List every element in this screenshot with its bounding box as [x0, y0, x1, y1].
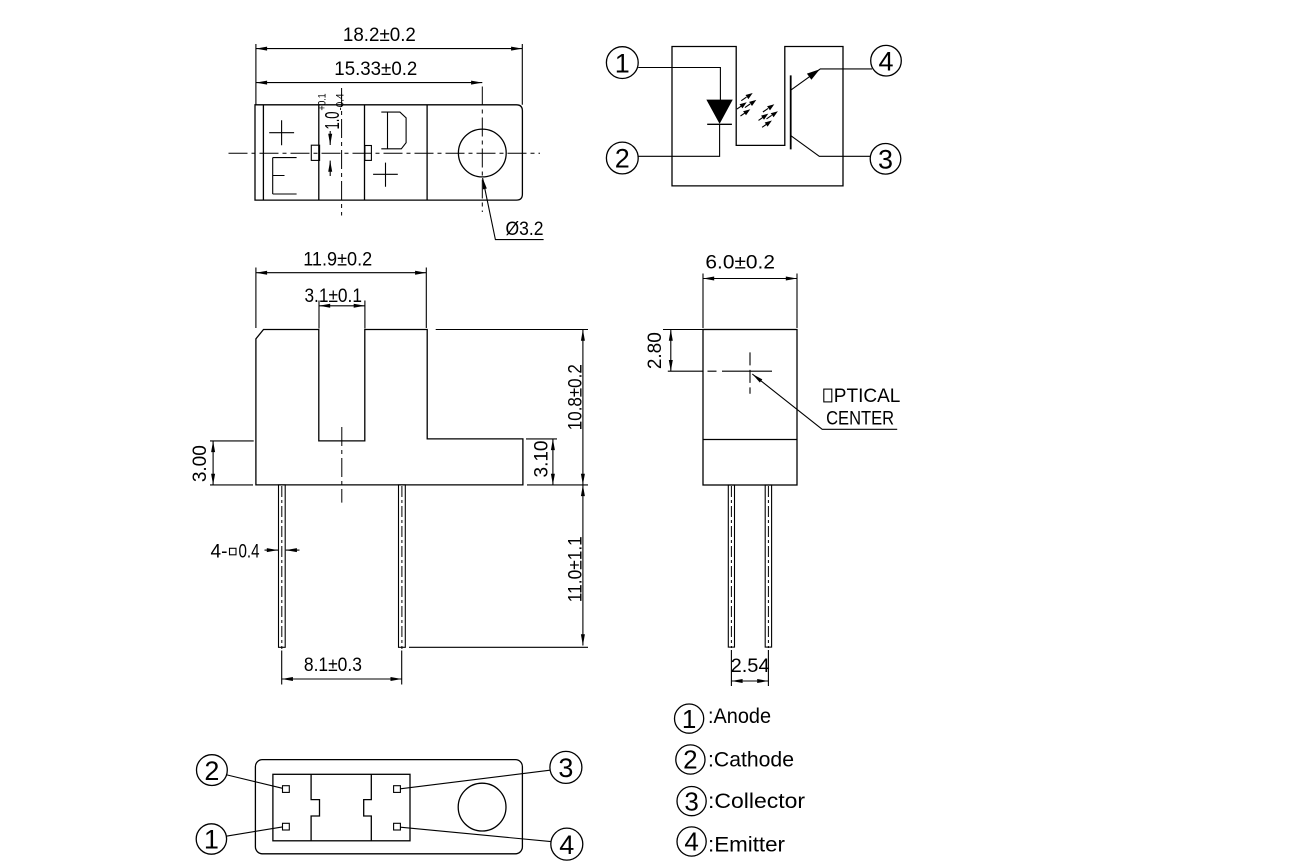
dimension 1.0 arrow upper	[329, 131, 331, 145]
leader pin2	[227, 775, 283, 788]
dimension 2.54 extension lines	[731, 650, 768, 686]
svg-text:3: 3	[878, 145, 893, 175]
light arrow 2	[741, 100, 757, 116]
top view hole centerline vertical	[481, 87, 483, 213]
pin 4 circle	[871, 45, 902, 76]
legend circle 2	[676, 745, 705, 774]
svg-text:15.33±0.2: 15.33±0.2	[334, 59, 417, 80]
svg-text:-0.4: -0.4	[335, 94, 347, 111]
top view D mark	[381, 112, 406, 149]
dimension text 3.00 rotated	[190, 445, 211, 482]
bottom view inner outline	[273, 774, 410, 841]
dimension 8.1 extension lines	[282, 651, 402, 685]
dimension 2.80 line	[670, 330, 672, 372]
bottom view circle 3	[550, 751, 582, 783]
legend circle 1	[675, 704, 704, 733]
svg-text:2.54: 2.54	[731, 656, 770, 677]
dimension 18.2 line	[256, 48, 522, 50]
svg-text:8.1±0.3: 8.1±0.3	[304, 655, 362, 676]
dimension 11.0 line	[582, 485, 584, 646]
top view left inner edge line	[262, 105, 264, 200]
top view package outline	[255, 105, 522, 200]
dimension 8.1 line	[282, 678, 402, 680]
svg-text:3: 3	[558, 753, 573, 783]
front view right pin centerline	[401, 486, 403, 649]
svg-text:4: 4	[878, 46, 893, 76]
dimension 3.10 extension line	[526, 438, 557, 440]
svg-text:3.10: 3.10	[532, 441, 553, 478]
top view section divider 2	[364, 105, 366, 200]
svg-text:10.8±0.2: 10.8±0.2	[566, 364, 587, 430]
svg-text:0.4: 0.4	[239, 542, 260, 563]
svg-text:1: 1	[204, 825, 219, 855]
dimension 6.0 line	[703, 278, 797, 280]
side view left pin	[728, 485, 734, 647]
pin 3 circle	[870, 144, 901, 175]
dimension text 3.10 rotated	[532, 441, 553, 478]
svg-text:11.9±0.2: 11.9±0.2	[303, 250, 372, 271]
pin 1 circle	[606, 47, 638, 79]
leader pin1	[226, 827, 282, 836]
pin 2 circle	[606, 142, 638, 174]
front view right pin	[399, 485, 406, 647]
svg-text:18.2±0.2: 18.2±0.2	[343, 25, 416, 46]
dimension 11.9 extension lines	[256, 268, 426, 329]
dimension 2.80 extension line	[663, 329, 703, 331]
optical center cross vertical	[749, 352, 751, 393]
optical center cross horizontal	[668, 370, 772, 372]
dimension 3.1 line	[319, 305, 365, 307]
svg-text:2: 2	[204, 756, 219, 786]
optical center leader	[752, 374, 897, 429]
svg-text::Emitter: :Emitter	[708, 834, 785, 857]
leader for hole diameter	[483, 178, 544, 240]
LED cathode bar	[707, 123, 732, 125]
dimension 3.00 extension lines	[210, 441, 254, 485]
side view base line	[703, 439, 797, 441]
dimension 15.33 line	[256, 82, 482, 84]
dimension text 2.80 rotated	[645, 332, 666, 369]
svg-text:3.00: 3.00	[190, 445, 211, 482]
top view horizontal centerline	[229, 152, 541, 154]
dimension 2.54 line	[731, 680, 768, 682]
light arrow 1	[737, 93, 753, 109]
top view polarity cross mark left	[269, 120, 294, 145]
transistor collector	[791, 136, 871, 157]
top view E mark	[273, 158, 297, 194]
svg-text::Anode: :Anode	[708, 705, 771, 728]
transistor emitter with arrow	[791, 69, 872, 90]
side view right pin	[765, 485, 771, 647]
svg-text:4: 4	[559, 830, 574, 860]
svg-text:CENTER: CENTER	[826, 409, 894, 430]
front view body outline	[256, 330, 523, 485]
legend circle 3	[677, 787, 706, 816]
svg-text:6.0±0.2: 6.0±0.2	[705, 253, 775, 274]
svg-text:PTICAL: PTICAL	[834, 386, 901, 407]
bottom view circle 4	[551, 828, 583, 860]
dimension 18.2 extension lines	[256, 44, 522, 105]
dimension text 10.8 rotated	[566, 364, 587, 430]
svg-text::Collector: :Collector	[708, 790, 805, 813]
dimension 3.00 line	[212, 441, 214, 485]
top view slot centerline vertical	[341, 88, 343, 216]
svg-text::Cathode: :Cathode	[708, 749, 794, 772]
bottom view divider left with notch	[311, 774, 319, 841]
svg-text:3: 3	[684, 786, 698, 816]
legend circle 4	[677, 827, 706, 856]
bottom view circle 2	[197, 755, 228, 786]
dimension 3.1 extension lines	[319, 301, 365, 329]
svg-text:11.0±1.1: 11.0±1.1	[566, 536, 587, 602]
leader pin4	[400, 827, 551, 841]
svg-text:1: 1	[682, 704, 696, 734]
side view body outline	[703, 330, 797, 486]
dimension 11.0 extension line	[409, 646, 588, 648]
dimension 3.10 line	[552, 439, 554, 485]
svg-text:2: 2	[683, 745, 697, 775]
pin width arrows	[265, 549, 279, 551]
phototransistor Q1 base line	[790, 75, 792, 149]
svg-text:2.80: 2.80	[645, 332, 666, 369]
side view right pin centerline	[767, 486, 769, 648]
bottom view circle 1	[196, 824, 226, 854]
top view mounting hole	[458, 129, 506, 177]
schematic package outline	[672, 47, 843, 186]
pad pin4 bottom-right	[394, 823, 401, 830]
light arrow 3	[759, 104, 775, 120]
OPTICAL text (box O)	[824, 389, 832, 402]
front view slot centerline	[341, 427, 343, 503]
wire cathode to pin2	[638, 124, 719, 156]
svg-text:Ø3.2: Ø3.2	[506, 219, 544, 240]
dimension 1.0 arrow lower	[329, 161, 331, 176]
pad pin1 bottom-left	[283, 823, 290, 830]
top view section divider 3	[426, 105, 428, 200]
bottom view hole	[458, 783, 506, 831]
front view left pin	[279, 485, 286, 647]
svg-text:1: 1	[615, 48, 630, 78]
svg-text:3.1±0.1: 3.1±0.1	[304, 286, 362, 307]
side view left pin centerline	[730, 486, 732, 648]
bottom view divider right with notch	[364, 774, 372, 841]
top view notch tab left	[311, 145, 319, 160]
top view polarity cross mark right	[373, 163, 398, 187]
svg-text:1.0: 1.0	[322, 112, 344, 130]
top view notch tab right	[365, 146, 372, 161]
svg-text:+0.1: +0.1	[317, 94, 329, 111]
leader pin3	[400, 770, 550, 789]
dimension 11.9 line	[256, 272, 426, 274]
dimension 10.8 line	[582, 330, 584, 485]
dimension text 1.0 +0.1/-0.4	[317, 94, 347, 130]
svg-text:4: 4	[684, 827, 698, 857]
LED D1 triangle	[707, 100, 732, 123]
light arrow 4	[762, 111, 778, 127]
dimension 6.0 extension lines	[703, 274, 797, 329]
dimension 10.8 extension lines	[436, 330, 588, 485]
wire pin1 to anode	[638, 68, 720, 101]
dimension text 11.0 rotated	[566, 536, 587, 602]
front view left pin centerline	[281, 486, 283, 649]
top view section divider 1	[318, 105, 320, 200]
svg-text:2: 2	[615, 144, 630, 174]
pad pin2 top-left	[283, 786, 290, 793]
pad pin3 top-right	[394, 786, 401, 793]
svg-text:4-: 4-	[211, 542, 228, 563]
bottom view outer outline	[255, 760, 522, 854]
